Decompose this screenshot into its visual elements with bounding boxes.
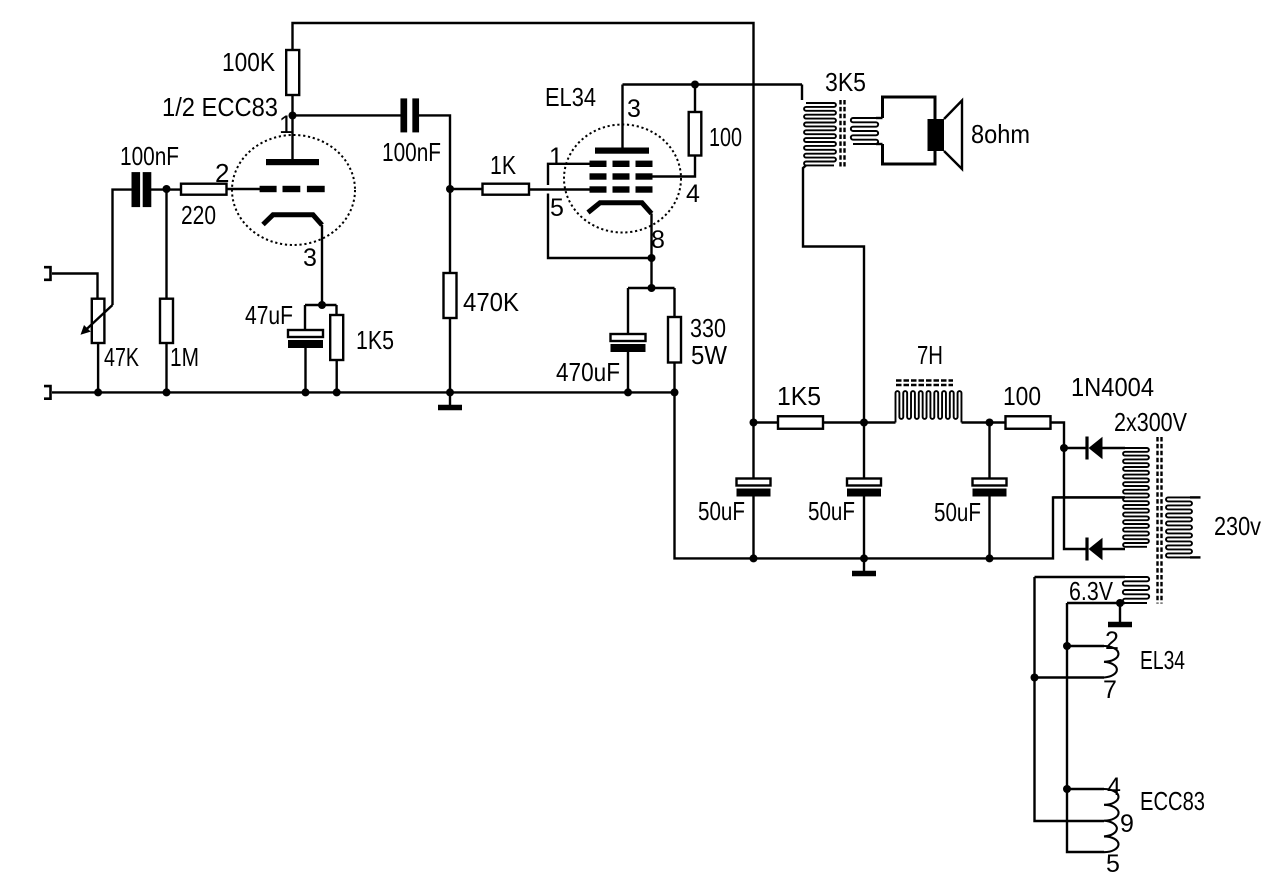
wire 1M bottom	[165, 343, 167, 392]
wire to 1K5	[335, 305, 337, 315]
choke core dashes	[896, 379, 953, 382]
transformer T1 3K5 primary winding	[801, 85, 803, 101]
T2 primary winding 230v	[1166, 497, 1192, 557]
wire 470K top	[449, 189, 451, 273]
input jack J2 (ground)	[44, 386, 51, 399]
junction dots on ground rail	[94, 388, 102, 396]
svg-text:230v: 230v	[1214, 511, 1261, 541]
capacitor 470uF (EL34 cathode bypass)	[611, 334, 646, 341]
svg-text:1K: 1K	[490, 150, 517, 180]
EL34 grid rows (g3,g2,g1)	[590, 161, 653, 193]
svg-text:5: 5	[550, 194, 564, 222]
svg-text:47K: 47K	[104, 342, 139, 372]
wire B+ top rail	[293, 23, 754, 423]
svg-text:330: 330	[690, 313, 726, 343]
svg-text:470uF: 470uF	[556, 357, 620, 387]
node C reservoir (junction dot)	[986, 419, 994, 427]
EL34 anode plate bar	[595, 148, 649, 154]
node anode pin 1 (junction dot)	[289, 112, 297, 120]
svg-text:ECC83: ECC83	[1140, 786, 1205, 816]
wire 6.3V bottom lead	[1067, 602, 1125, 604]
speaker LS1 cabinet	[883, 97, 936, 164]
speaker magnet	[928, 119, 945, 151]
wire cathode network top	[305, 304, 337, 306]
wire 470uF bottom	[627, 352, 629, 392]
svg-text:5: 5	[1106, 850, 1120, 878]
node pin4 (junction dot)	[1063, 785, 1071, 793]
svg-text:3: 3	[303, 244, 317, 272]
wire 100 top	[694, 85, 696, 113]
svg-text:1N4004: 1N4004	[1071, 372, 1154, 402]
wire ECC83 cathode lead	[321, 225, 323, 305]
svg-text:8: 8	[651, 226, 665, 254]
resistor 1K5 (PSU dropper)	[778, 416, 823, 429]
svg-text:50uF: 50uF	[934, 497, 981, 527]
svg-text:1K5: 1K5	[356, 325, 394, 355]
transformer T2 HV secondary 2x300V	[1123, 448, 1149, 547]
ECC83 heater element	[1104, 789, 1119, 852]
wire 1K5 bottom	[336, 360, 338, 392]
ground symbol (heater)	[1119, 603, 1121, 625]
wire rectifier cathode bus	[1064, 448, 1087, 549]
svg-text:100nF: 100nF	[120, 141, 179, 171]
input jack J1 (signal)	[44, 267, 51, 280]
wire D1 anode to HV winding	[1102, 447, 1125, 449]
wire EL34 heater pin 2	[1067, 645, 1104, 647]
svg-text:9: 9	[1120, 810, 1134, 838]
node 6.3V ground tap (junction dot)	[1116, 599, 1124, 607]
EL34 heater element	[1104, 646, 1118, 678]
capacitor 50uF #3	[988, 423, 990, 479]
tube V1 EL34 envelope	[564, 125, 681, 233]
resistor 1M (grid leak)	[160, 299, 173, 343]
wire pot bottom to ground rail	[97, 343, 99, 392]
wire heater hot bus	[1035, 577, 1105, 821]
svg-text:8ohm: 8ohm	[971, 119, 1030, 149]
svg-text:220: 220	[181, 200, 216, 230]
svg-text:2: 2	[215, 158, 229, 188]
svg-text:1: 1	[549, 143, 563, 171]
node EL34 cathode network (junction dot)	[648, 284, 656, 292]
node B output-stage B+ (junction dot)	[860, 419, 868, 427]
wire anode rail to output transformer	[623, 83, 803, 85]
node ECC83 cathode (junction dot)	[318, 301, 326, 309]
wire 6.3V top lead	[1035, 576, 1126, 578]
node pin8/g3 tie (junction dot)	[648, 254, 656, 262]
resistor 1K (EL34 grid stopper)	[483, 184, 530, 195]
svg-text:3K5: 3K5	[825, 67, 866, 97]
resistor 330 5W (EL34 cathode)	[668, 317, 681, 363]
wire to 47uF	[304, 305, 306, 330]
wire to 330	[673, 288, 675, 317]
wire cathode network top	[628, 287, 675, 289]
wire D1 cathode to node	[1064, 447, 1087, 449]
resistor 470K (EL34 grid leak)	[444, 273, 457, 318]
wire 1M top	[165, 189, 167, 299]
svg-text:EL34: EL34	[1140, 645, 1185, 675]
svg-text:EL34: EL34	[545, 82, 596, 112]
resistor 100K (anode load)	[286, 50, 299, 95]
wire J1 to volume pot top	[52, 274, 98, 299]
T2 heater winding 6.3V	[1123, 577, 1149, 603]
wire 220 to ECC83 grid	[227, 188, 261, 190]
T1 secondary winding	[851, 118, 878, 144]
wire HV center tap	[1053, 496, 1125, 498]
wire g3-to-cathode tie (jump over grid wire)	[548, 194, 652, 259]
wire wiper to coupling cap C1	[113, 190, 133, 305]
node screen feed (junction dot)	[691, 81, 699, 89]
wire 330 bottom	[673, 363, 675, 393]
wire ground link to PSU	[675, 392, 1126, 558]
svg-text:7H: 7H	[917, 340, 943, 370]
wire D2 anode to HV winding	[1102, 548, 1125, 550]
svg-text:100: 100	[1003, 381, 1041, 411]
wire T1 primary bottom to B+ node	[803, 165, 864, 422]
svg-text:4: 4	[686, 180, 700, 208]
node grid ECC83 (junction dot)	[163, 185, 171, 193]
svg-text:100K: 100K	[222, 47, 276, 77]
resistor 100 (screen)	[689, 112, 702, 156]
wire 470K bottom	[449, 317, 451, 392]
wire EL34 heater pin 7	[1035, 676, 1105, 678]
capacitor 50uF #1	[752, 423, 754, 479]
tube U1 1/2 ECC83 envelope	[232, 135, 355, 245]
T1 core	[839, 100, 841, 167]
wire heater return bus	[1067, 603, 1104, 852]
svg-text:1/2 ECC83: 1/2 ECC83	[162, 92, 278, 122]
node 50uF #1 bottom (junction dot)	[750, 554, 758, 562]
wire main ground rail	[52, 391, 675, 393]
svg-text:1M: 1M	[170, 342, 199, 372]
wire EL34 cathode lead (pin 8)	[650, 214, 652, 289]
wire 1K5 to choke	[823, 421, 896, 423]
EL34 cathode	[588, 203, 652, 214]
T2 core	[1156, 437, 1158, 604]
resistor 100 (PSU)	[1006, 416, 1051, 429]
ECC83 anode plate bar	[266, 159, 319, 165]
svg-text:5W: 5W	[691, 340, 727, 370]
svg-text:50uF: 50uF	[808, 496, 855, 526]
wire choke to 100	[962, 421, 1006, 423]
ground symbol (main)	[449, 392, 451, 407]
node pin2 (junction dot)	[1063, 642, 1071, 650]
svg-text:47uF: 47uF	[245, 300, 293, 330]
capacitor 50uF #2	[863, 423, 865, 479]
svg-text:100: 100	[709, 122, 742, 152]
resistor 220 (grid stopper)	[181, 184, 227, 195]
wire secondary to speaker	[876, 117, 883, 119]
svg-text:2: 2	[1105, 627, 1119, 655]
node A B+ preamp feed (junction dot)	[750, 419, 758, 427]
diode D2 1N4004 (lower)	[1085, 538, 1088, 561]
wire EL34 anode (pin 3)	[621, 85, 623, 148]
wire node to 1K	[450, 188, 483, 190]
choke L1 7H winding	[896, 391, 962, 422]
capacitor C2 100nF (interstage coupling)	[400, 98, 407, 132]
svg-text:100nF: 100nF	[382, 137, 441, 167]
speaker cone	[944, 101, 962, 170]
wire PSU rail segment (node A to 1K5)	[754, 421, 779, 423]
wire C2 to EL34 grid node	[419, 115, 450, 189]
node 50uF #2 bottom (junction dot)	[860, 554, 868, 562]
wire to 470uF	[627, 288, 629, 334]
potentiometer wiper arrow	[84, 305, 113, 332]
svg-text:6.3V: 6.3V	[1069, 576, 1114, 606]
ECC83 grid dashes	[260, 186, 325, 192]
node EL34 grid (junction dot)	[446, 185, 454, 193]
resistor 1K5 (ECC83 cathode)	[330, 315, 343, 360]
wire EL34 g3 stub (pin 1)	[548, 164, 590, 185]
svg-text:7: 7	[1103, 676, 1117, 704]
svg-text:1K5: 1K5	[777, 381, 821, 411]
node rectifier output (junction dot)	[1060, 444, 1068, 452]
capacitor C1 100nF (input coupling)	[132, 172, 141, 207]
wire anode to coupling cap C2	[293, 114, 401, 116]
svg-text:470K: 470K	[463, 287, 520, 317]
svg-text:50uF: 50uF	[698, 496, 745, 526]
svg-text:2x300V: 2x300V	[1114, 407, 1188, 437]
wire 47uF bottom	[304, 348, 306, 392]
ECC83 cathode	[263, 215, 322, 225]
wire 230v leads	[1190, 496, 1201, 498]
wire ECC83 anode (pin 1)	[291, 95, 293, 159]
wire screen g2 (pin 4)	[653, 156, 696, 177]
wire 100 to rectifier	[1051, 423, 1065, 449]
diode D1 1N4004 (upper)	[1085, 437, 1088, 460]
svg-text:4: 4	[1107, 773, 1121, 801]
wire ECC83 heater pin 4	[1067, 788, 1104, 790]
node pin7 (junction dot)	[1031, 674, 1039, 682]
svg-text:3: 3	[627, 95, 641, 123]
wire C1 to grid node	[151, 188, 182, 190]
svg-text:1: 1	[279, 111, 293, 139]
potentiometer 47K body	[92, 299, 105, 343]
wire 1K to EL34 g1	[529, 188, 590, 190]
node 50uF #3 bottom (junction dot)	[986, 554, 994, 562]
capacitor 47uF (cathode bypass)	[288, 330, 323, 337]
ground symbol (PSU)	[863, 558, 865, 573]
